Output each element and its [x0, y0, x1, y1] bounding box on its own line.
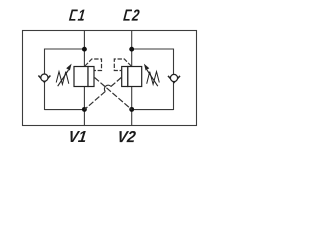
outer valve body outline	[23, 31, 197, 126]
spring of CB2	[147, 72, 160, 85]
wire: C2 port line from top border down to valve CB2	[131, 30, 133, 67]
wire: right branch top horizontal	[132, 48, 174, 50]
pilot line CB1 internal (dashed hook)	[85, 59, 102, 71]
check valve CV1 ball	[41, 74, 48, 81]
junction top-right	[129, 47, 134, 52]
port label C1	[70, 10, 85, 21]
wire: C1 port line from top border down to valve CB1	[83, 30, 85, 67]
adjustment arrow of CB2	[144, 64, 158, 87]
wire: right branch vertical upper	[173, 49, 175, 75]
junction bottom-left	[82, 107, 87, 112]
wire: left branch vertical lower	[44, 82, 46, 110]
wire: left branch vertical upper	[44, 49, 46, 75]
wire: valve CB2 bottom to V2 port	[131, 87, 133, 126]
pilot line CB2 internal (dashed hook)	[114, 59, 131, 71]
wire: right branch bottom horizontal	[132, 109, 174, 111]
adjustment arrow of CB1	[58, 64, 72, 87]
spring of CB1	[56, 72, 69, 85]
counterbalance valve CB2 pilot piston	[122, 67, 128, 87]
junction top-left	[82, 47, 87, 52]
port label V1	[70, 131, 85, 142]
wire: left branch bottom horizontal	[45, 109, 85, 111]
check valve CV2 ball	[170, 74, 177, 81]
port label C2	[124, 10, 139, 21]
wire: left branch top horizontal	[45, 48, 85, 50]
pilot line CB2 cross (dashed diagonal to opposite port)	[84, 78, 121, 110]
counterbalance valve CB1 body	[74, 67, 88, 87]
check valve CV1 seat	[38, 76, 50, 83]
junction bottom-right	[129, 107, 134, 112]
wire: valve CB1 bottom to V1 port	[83, 87, 85, 126]
pilot line CB1 cross (dashed diagonal to opposite port)	[95, 78, 132, 110]
port label V2	[119, 131, 135, 142]
pilot line hop arc over crossing	[104, 85, 111, 91]
wire: right branch vertical lower	[173, 82, 175, 110]
check valve CV2 seat	[168, 76, 180, 83]
counterbalance valve CB2 body	[128, 67, 142, 87]
counterbalance valve CB1 pilot piston	[88, 67, 94, 87]
